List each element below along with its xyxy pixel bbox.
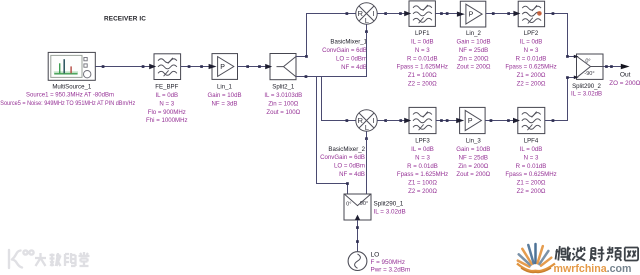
svg-text:R = 0.01dB: R = 0.01dB (407, 163, 438, 170)
svg-text:BasicMixer_2: BasicMixer_2 (328, 146, 365, 153)
wire Split2_1 top output to BasicMixer_1 (296, 14, 347, 57)
amplifier Lin_2 (460, 1, 486, 27)
svg-text:Z1 = 200Ω: Z1 = 200Ω (517, 72, 546, 79)
wire BasicMixer_1 LO port to Split290_1 (317, 32, 367, 194)
svg-text:Lin_1: Lin_1 (217, 84, 233, 91)
oscillator LO (348, 252, 367, 271)
filter LPF4 (518, 107, 545, 133)
svg-text:Zout = 200Ω: Zout = 200Ω (456, 171, 490, 178)
svg-text:Zout = 200Ω: Zout = 200Ω (457, 64, 491, 71)
wire Lin_1 to Split2_1 (238, 66, 271, 68)
watermark bottom-left (9, 250, 34, 268)
filter LPF3 (409, 107, 436, 133)
amplifier Lin_3 (460, 107, 486, 133)
wire LO to Split290_1 (357, 220, 359, 252)
svg-text:R = 0.01dB: R = 0.01dB (516, 55, 547, 62)
svg-text:P: P (469, 12, 474, 19)
node Out arrow (621, 64, 630, 70)
wire BasicMixer_2 LO port to Split290_1 (366, 139, 368, 195)
combiner Split290_2 (577, 54, 604, 79)
svg-text:0°: 0° (346, 201, 351, 207)
wire BasicMixer_1 to LPF1 (386, 13, 409, 15)
svg-text:Fhi = 1000MHz: Fhi = 1000MHz (146, 117, 188, 124)
watermark mwrfchina text (556, 246, 639, 261)
svg-text:LPF4: LPF4 (524, 138, 539, 145)
svg-text:NF = 4dB: NF = 4dB (339, 171, 365, 178)
svg-text:P: P (220, 64, 225, 71)
wire source to FE_BPF (95, 66, 154, 68)
splitter Split290_1 (344, 194, 371, 220)
svg-text:Z2 = 200Ω: Z2 = 200Ω (517, 188, 546, 195)
watermark mwrfchina logo (518, 261, 530, 267)
svg-text:N = 3: N = 3 (415, 47, 430, 54)
svg-text:Gain = 10dB: Gain = 10dB (207, 92, 241, 99)
svg-text:BasicMixer_1: BasicMixer_1 (330, 39, 367, 46)
svg-text:N = 3: N = 3 (415, 154, 430, 161)
svg-text:I: I (372, 116, 374, 125)
svg-text:Zin = 200Ω: Zin = 200Ω (458, 55, 489, 62)
wire Split290_2 output to Out port (603, 66, 621, 68)
wire LPF4 to Split290_2 bottom input (545, 78, 577, 121)
svg-text:L: L (365, 123, 369, 132)
svg-text:NF = 25dB: NF = 25dB (459, 47, 488, 54)
svg-text:P: P (468, 118, 473, 125)
svg-text:Zin = 200Ω: Zin = 200Ω (458, 163, 489, 170)
svg-text:LPF1: LPF1 (415, 30, 430, 37)
probe marker on LPF2 output (537, 11, 542, 16)
svg-text:MultiSource_1: MultiSource_1 (52, 83, 92, 90)
svg-text:Flo = 900MHz: Flo = 900MHz (148, 109, 186, 116)
wire FE_BPF to Lin_1 (181, 66, 212, 68)
svg-text:Split290_2: Split290_2 (572, 83, 601, 90)
wire Lin_3 to LPF4 (485, 120, 518, 122)
svg-text:RECEIVER IC: RECEIVER IC (104, 16, 146, 23)
svg-text:IL = 0dB: IL = 0dB (520, 146, 543, 153)
svg-text:R: R (357, 9, 363, 18)
svg-text:NF = 4dB: NF = 4dB (341, 64, 367, 71)
svg-text:IL = 3.0103dB: IL = 3.0103dB (264, 92, 302, 99)
wire Lin_2 to LPF2 (486, 13, 518, 15)
svg-text:IL = 0dB: IL = 0dB (411, 38, 434, 45)
svg-text:IL = 0dB: IL = 0dB (411, 146, 434, 153)
svg-text:Z2 = 200Ω: Z2 = 200Ω (408, 188, 437, 195)
svg-text:N = 3: N = 3 (524, 154, 539, 161)
svg-text:Z1 = 200Ω: Z1 = 200Ω (517, 180, 546, 187)
mixer BasicMixer_2 (356, 110, 377, 131)
svg-text:Lin_3: Lin_3 (466, 138, 482, 145)
svg-text:0°: 0° (585, 58, 590, 64)
svg-text:R = 0.01dB: R = 0.01dB (516, 163, 547, 170)
svg-text:Lin_2: Lin_2 (466, 30, 482, 37)
svg-text:IL = 3.02dB: IL = 3.02dB (374, 208, 406, 215)
svg-text:LPF2: LPF2 (524, 30, 539, 37)
wire BasicMixer_2 to LPF3 (386, 120, 409, 122)
svg-text:IL = 0dB: IL = 0dB (520, 38, 543, 45)
filter FE_BPF (154, 54, 181, 80)
svg-text:ZO = 200Ω: ZO = 200Ω (609, 80, 640, 87)
svg-text:Source5 = Noise: 949MHz TO 951: Source5 = Noise: 949MHz TO 951MHz AT PIN… (0, 100, 135, 107)
svg-text:Fpass = 0.625MHz: Fpass = 0.625MHz (505, 64, 556, 71)
splitter Split2_1 (270, 54, 296, 80)
svg-text:R = 0.01dB: R = 0.01dB (407, 55, 438, 62)
svg-text:Out: Out (620, 72, 631, 79)
svg-text:Split2_1: Split2_1 (272, 84, 295, 91)
svg-text:Fpass = 0.625MHz: Fpass = 0.625MHz (505, 171, 556, 178)
svg-text:FE_BPF: FE_BPF (155, 84, 178, 91)
svg-text:Zout = 100Ω: Zout = 100Ω (266, 109, 300, 116)
wire Split2_1 bottom output to BasicMixer_2 (296, 77, 348, 121)
svg-text:Fpass = 1.625MHz: Fpass = 1.625MHz (397, 64, 448, 71)
filter LPF2 (518, 1, 544, 27)
svg-text:-90°: -90° (584, 71, 594, 77)
svg-text:NF = 25dB: NF = 25dB (459, 154, 488, 161)
svg-text:NF = 3dB: NF = 3dB (212, 100, 238, 107)
svg-text:LO = 0dBm: LO = 0dBm (336, 55, 367, 62)
svg-text:L: L (365, 16, 369, 25)
mixer BasicMixer_1 (356, 3, 377, 24)
svg-text:Z2 = 200Ω: Z2 = 200Ω (408, 81, 437, 88)
svg-text:mwrfchina.com: mwrfchina.com (554, 263, 632, 275)
svg-text:Gain = 10dB: Gain = 10dB (456, 146, 490, 153)
wire LPF3 to Lin_3 (436, 120, 460, 122)
svg-text:F = 950MHz: F = 950MHz (371, 259, 405, 266)
svg-text:N = 3: N = 3 (524, 47, 539, 54)
svg-text:LO = 0dBm: LO = 0dBm (334, 163, 365, 170)
svg-text:Z1 = 100Ω: Z1 = 100Ω (408, 72, 437, 79)
wire LPF1 to Lin_2 (435, 13, 460, 15)
amplifier Lin_1 (212, 54, 238, 80)
svg-text:Z2 = 200Ω: Z2 = 200Ω (517, 81, 546, 88)
svg-text:ConvGain = 6dB: ConvGain = 6dB (320, 154, 365, 161)
svg-text:ConvGain = 6dB: ConvGain = 6dB (322, 47, 367, 54)
svg-text:Split290_1: Split290_1 (374, 200, 404, 207)
svg-text:Gain = 10dB: Gain = 10dB (456, 38, 490, 45)
svg-text:N = 3: N = 3 (159, 100, 174, 107)
svg-text:LPF3: LPF3 (415, 138, 430, 145)
wire LPF2 to Split290_2 top input (545, 14, 577, 57)
svg-text:Pwr = 3.2dBm: Pwr = 3.2dBm (371, 267, 411, 274)
svg-text:Z1 = 100Ω: Z1 = 100Ω (408, 180, 437, 187)
svg-text:90°: 90° (360, 201, 368, 207)
filter LPF1 (409, 1, 435, 27)
svg-text:LO: LO (371, 252, 380, 259)
svg-text:R: R (357, 116, 363, 125)
svg-text:Source1 = 950.3MHz AT -80dBm: Source1 = 950.3MHz AT -80dBm (26, 92, 114, 99)
svg-text:Fpass = 1.625MHz: Fpass = 1.625MHz (397, 171, 448, 178)
svg-text:Zin = 100Ω: Zin = 100Ω (268, 100, 299, 107)
source MultiSource_1 (48, 52, 95, 80)
svg-text:I: I (372, 9, 374, 18)
svg-text:IL = 3.02dB: IL = 3.02dB (571, 91, 602, 98)
svg-text:IL = 0dB: IL = 0dB (155, 92, 178, 99)
